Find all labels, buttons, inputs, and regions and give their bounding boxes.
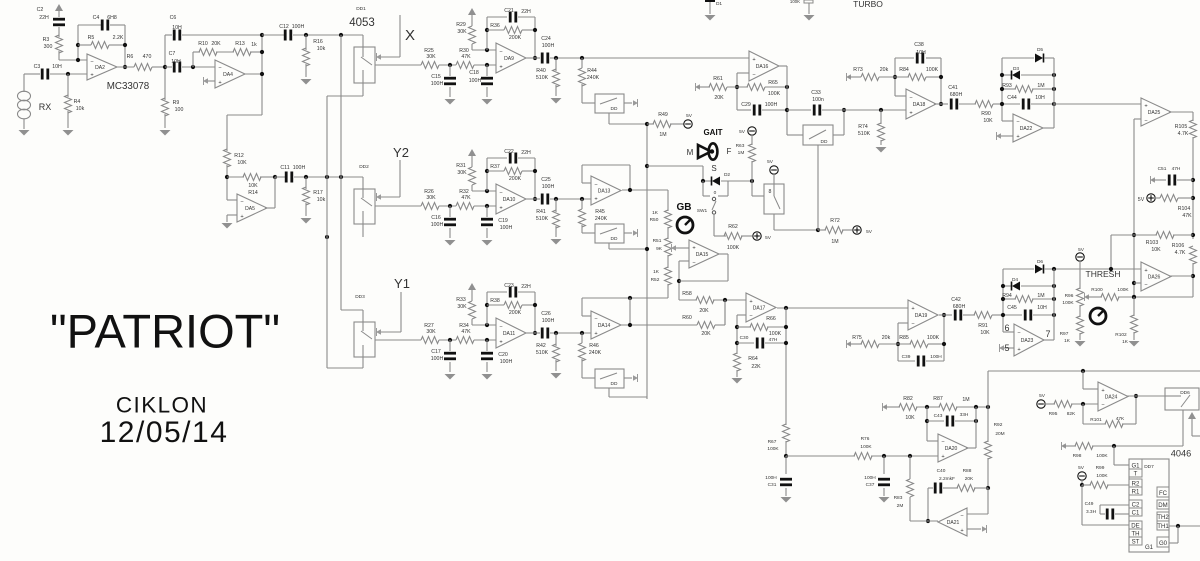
svg-text:C16: C16 <box>431 215 441 221</box>
svg-text:R42: R42 <box>536 343 546 349</box>
svg-text:DA17: DA17 <box>753 306 766 312</box>
svg-text:3.3H: 3.3H <box>1086 509 1097 515</box>
svg-text:TH1: TH1 <box>1157 523 1169 530</box>
svg-text:C44: C44 <box>1007 95 1017 101</box>
svg-text:0: 0 <box>714 190 717 196</box>
svg-text:R88: R88 <box>963 468 972 474</box>
svg-text:DE: DE <box>1131 523 1139 530</box>
svg-text:1M: 1M <box>1037 83 1044 89</box>
svg-text:R75: R75 <box>852 335 862 341</box>
svg-text:C12: C12 <box>279 24 289 30</box>
svg-text:300: 300 <box>44 44 53 50</box>
svg-text:4053: 4053 <box>349 17 375 29</box>
svg-text:1k: 1k <box>251 42 257 48</box>
svg-text:5V: 5V <box>1078 247 1085 253</box>
svg-text:C11: C11 <box>280 165 289 171</box>
svg-text:510K: 510K <box>536 216 549 222</box>
svg-text:D6: D6 <box>1037 259 1043 265</box>
svg-text:680H: 680H <box>953 304 966 310</box>
svg-text:R17: R17 <box>313 190 323 196</box>
svg-text:2.2mkF: 2.2mkF <box>939 476 955 482</box>
svg-text:10k: 10k <box>317 197 326 203</box>
svg-text:100H: 100H <box>431 222 444 228</box>
svg-text:DA10: DA10 <box>503 197 516 203</box>
svg-text:5V: 5V <box>1039 393 1046 399</box>
svg-text:R2: R2 <box>1132 481 1140 488</box>
svg-text:6: 6 <box>1004 323 1009 333</box>
svg-text:R16: R16 <box>313 39 323 45</box>
svg-text:DA20: DA20 <box>945 446 958 452</box>
svg-text:100K: 100K <box>860 444 872 450</box>
svg-text:R63: R63 <box>736 143 745 149</box>
svg-text:100H: 100H <box>765 475 777 481</box>
svg-text:DD3: DD3 <box>355 294 365 300</box>
svg-text:DD: DD <box>821 139 828 145</box>
svg-text:5: 5 <box>1004 343 1009 353</box>
svg-text:10H: 10H <box>916 50 926 56</box>
svg-text:22H: 22H <box>39 15 49 21</box>
svg-text:DA21: DA21 <box>947 520 960 526</box>
svg-text:C45: C45 <box>1007 305 1017 311</box>
svg-text:D3: D3 <box>1013 66 1019 72</box>
svg-text:22K: 22K <box>751 364 761 370</box>
svg-text:R105: R105 <box>1175 124 1188 130</box>
svg-text:R1: R1 <box>1132 489 1140 496</box>
svg-text:2.2K: 2.2K <box>113 35 124 41</box>
svg-text:FC: FC <box>1159 490 1168 497</box>
svg-text:30K: 30K <box>457 170 467 176</box>
svg-text:R13: R13 <box>235 41 245 47</box>
svg-text:X: X <box>405 27 415 44</box>
svg-text:C6: C6 <box>170 15 177 21</box>
svg-text:100H: 100H <box>500 359 513 365</box>
svg-text:20k: 20k <box>882 335 891 341</box>
svg-text:DA22: DA22 <box>1020 126 1033 132</box>
svg-text:10K: 10K <box>1151 247 1161 253</box>
svg-text:D4: D4 <box>1012 277 1018 283</box>
svg-text:510K: 510K <box>858 131 871 137</box>
svg-text:C7: C7 <box>169 51 176 57</box>
svg-text:R85: R85 <box>899 335 909 341</box>
svg-text:47K: 47K <box>461 195 471 201</box>
svg-text:4.7K: 4.7K <box>1175 250 1186 256</box>
svg-text:10K: 10K <box>983 118 993 124</box>
svg-text:10H: 10H <box>171 59 181 65</box>
svg-text:10k: 10k <box>76 106 85 112</box>
svg-text:100K: 100K <box>767 446 779 452</box>
svg-text:R100: R100 <box>1091 287 1103 293</box>
svg-text:R40: R40 <box>536 68 546 74</box>
svg-text:30K: 30K <box>457 29 467 35</box>
svg-text:Y1: Y1 <box>394 276 410 291</box>
svg-text:1M: 1M <box>962 397 969 403</box>
svg-text:510K: 510K <box>536 350 549 356</box>
svg-text:R29: R29 <box>456 22 466 28</box>
svg-text:DD2: DD2 <box>359 164 369 170</box>
svg-text:R67: R67 <box>768 439 777 445</box>
svg-text:5V: 5V <box>1078 465 1085 471</box>
svg-text:82K: 82K <box>1067 411 1076 417</box>
svg-text:R5: R5 <box>88 35 95 41</box>
svg-text:CIKLON: CIKLON <box>116 393 208 418</box>
svg-text:20k: 20k <box>880 67 889 73</box>
svg-text:R10: R10 <box>198 41 208 47</box>
svg-text:R60: R60 <box>682 315 692 321</box>
svg-text:7: 7 <box>1045 329 1050 339</box>
svg-text:R104: R104 <box>1178 206 1191 212</box>
svg-text:G1: G1 <box>1145 544 1154 551</box>
svg-text:DA15: DA15 <box>696 252 709 258</box>
svg-text:R37: R37 <box>490 164 500 170</box>
svg-text:ST: ST <box>1132 539 1140 546</box>
svg-text:R36: R36 <box>490 23 500 29</box>
svg-text:R4: R4 <box>74 99 81 105</box>
svg-text:100n: 100n <box>812 97 824 103</box>
svg-text:C40: C40 <box>937 468 946 474</box>
svg-text:R99: R99 <box>1096 465 1105 471</box>
svg-text:47K: 47K <box>461 54 471 60</box>
svg-text:1M: 1M <box>831 239 838 245</box>
svg-text:C49: C49 <box>1085 501 1094 507</box>
svg-text:F: F <box>727 147 732 156</box>
svg-text:R6: R6 <box>127 54 134 60</box>
svg-text:5V: 5V <box>765 235 772 241</box>
svg-text:C3: C3 <box>34 64 41 70</box>
svg-text:MC33078: MC33078 <box>107 81 150 92</box>
svg-text:100H: 100H <box>765 102 778 108</box>
svg-text:T: T <box>1134 471 1138 478</box>
svg-text:R90: R90 <box>981 111 991 117</box>
svg-text:100K: 100K <box>769 331 782 337</box>
svg-text:C43: C43 <box>934 413 943 419</box>
svg-text:30K: 30K <box>426 54 436 60</box>
svg-text:M: M <box>687 148 694 157</box>
svg-text:R61: R61 <box>713 76 723 82</box>
svg-text:47H: 47H <box>1172 166 1181 172</box>
svg-text:22H: 22H <box>521 284 531 290</box>
svg-text:R82: R82 <box>903 396 913 402</box>
svg-text:100H: 100H <box>469 78 482 84</box>
svg-text:20K: 20K <box>965 476 974 482</box>
svg-text:200K: 200K <box>509 310 522 316</box>
svg-text:4.7K: 4.7K <box>1178 131 1189 137</box>
svg-text:R62: R62 <box>728 224 738 230</box>
svg-text:R95: R95 <box>1049 411 1058 417</box>
svg-text:10K: 10K <box>905 415 915 421</box>
svg-text:R64: R64 <box>748 356 758 362</box>
svg-text:C26: C26 <box>541 311 551 317</box>
svg-text:R102: R102 <box>1115 332 1127 338</box>
svg-text:R9: R9 <box>173 100 180 106</box>
svg-text:R49: R49 <box>658 112 668 118</box>
svg-text:C29: C29 <box>741 102 751 108</box>
svg-text:DD7: DD7 <box>1144 464 1154 470</box>
svg-text:10H: 10H <box>52 64 62 70</box>
svg-text:100H: 100H <box>930 354 942 360</box>
svg-text:R31: R31 <box>456 163 466 169</box>
svg-text:240K: 240K <box>587 75 600 81</box>
svg-text:R98: R98 <box>1073 453 1082 459</box>
svg-text:C23: C23 <box>504 283 514 289</box>
svg-text:C1: C1 <box>1132 510 1140 517</box>
svg-text:10H: 10H <box>172 25 182 31</box>
svg-text:240K: 240K <box>589 350 602 356</box>
svg-text:100K: 100K <box>790 0 800 4</box>
svg-text:10H: 10H <box>1035 95 1045 101</box>
svg-text:8: 8 <box>769 189 772 195</box>
svg-text:R38: R38 <box>490 298 500 304</box>
svg-text:5V: 5V <box>739 129 746 135</box>
svg-text:DA9: DA9 <box>504 56 514 62</box>
svg-text:200K: 200K <box>509 35 522 41</box>
svg-text:RX: RX <box>39 102 52 112</box>
svg-text:G0: G0 <box>1159 540 1168 547</box>
svg-text:DA5: DA5 <box>245 206 255 212</box>
svg-text:S: S <box>711 164 716 173</box>
svg-text:D5: D5 <box>1037 47 1043 53</box>
svg-text:C22: C22 <box>504 149 514 155</box>
svg-text:C20: C20 <box>498 352 508 358</box>
svg-text:DD6: DD6 <box>1180 390 1190 396</box>
svg-text:R101: R101 <box>1090 417 1102 423</box>
svg-text:100: 100 <box>175 107 184 113</box>
svg-text:R46: R46 <box>589 343 599 349</box>
svg-text:R74: R74 <box>858 124 868 130</box>
svg-text:100K: 100K <box>768 91 781 97</box>
svg-text:1K: 1K <box>1122 339 1129 345</box>
svg-text:DM: DM <box>1158 502 1167 509</box>
svg-text:470: 470 <box>143 54 152 60</box>
svg-text:R50: R50 <box>650 217 659 223</box>
svg-text:C17: C17 <box>431 349 441 355</box>
svg-text:DA25: DA25 <box>1148 110 1161 116</box>
svg-text:5V: 5V <box>866 229 873 235</box>
svg-text:R83: R83 <box>894 495 903 501</box>
svg-text:R45: R45 <box>595 209 605 215</box>
svg-text:33H: 33H <box>960 412 969 418</box>
svg-text:C38: C38 <box>914 42 924 48</box>
svg-text:12/05/14: 12/05/14 <box>100 416 229 449</box>
svg-text:C15: C15 <box>431 74 441 80</box>
svg-text:R91: R91 <box>978 323 988 329</box>
svg-text:TURBO: TURBO <box>853 0 883 9</box>
svg-text:30K: 30K <box>457 304 467 310</box>
svg-text:DD: DD <box>611 106 618 112</box>
svg-text:6H8: 6H8 <box>107 15 117 21</box>
svg-text:22H: 22H <box>521 9 531 15</box>
svg-text:200K: 200K <box>509 176 522 182</box>
svg-text:R96: R96 <box>1065 293 1074 299</box>
svg-text:10K: 10K <box>980 330 990 336</box>
svg-text:22H: 22H <box>521 150 531 156</box>
svg-text:20M: 20M <box>995 431 1004 437</box>
svg-text:5V: 5V <box>686 113 693 119</box>
svg-text:R92: R92 <box>994 422 1003 428</box>
svg-text:100H: 100H <box>292 24 305 30</box>
svg-text:DA16: DA16 <box>756 64 769 70</box>
svg-text:DD: DD <box>611 236 618 242</box>
svg-text:DA11: DA11 <box>503 331 515 337</box>
svg-text:100K: 100K <box>927 335 940 341</box>
svg-text:Y2: Y2 <box>393 145 409 160</box>
svg-text:C19: C19 <box>498 218 508 224</box>
svg-text:C33: C33 <box>811 90 821 96</box>
svg-text:R93: R93 <box>1002 83 1012 89</box>
svg-text:100K: 100K <box>926 67 939 73</box>
svg-text:C31: C31 <box>768 482 777 488</box>
svg-text:20K: 20K <box>714 95 724 101</box>
svg-text:100K: 100K <box>1096 453 1108 459</box>
svg-text:1K: 1K <box>1064 338 1071 344</box>
svg-text:1M: 1M <box>1037 293 1044 299</box>
svg-text:1M: 1M <box>738 150 745 156</box>
svg-text:R73: R73 <box>853 67 863 73</box>
svg-text:100H: 100H <box>864 475 876 481</box>
svg-text:C4: C4 <box>93 15 100 21</box>
svg-text:D1: D1 <box>716 1 722 7</box>
svg-text:R97: R97 <box>1060 331 1069 337</box>
svg-text:R51: R51 <box>653 238 662 244</box>
svg-text:10k: 10k <box>317 46 326 52</box>
svg-text:DD: DD <box>611 381 618 387</box>
svg-text:TH: TH <box>1131 531 1139 538</box>
svg-text:47K: 47K <box>461 329 471 335</box>
svg-text:R33: R33 <box>456 297 466 303</box>
svg-text:DA23: DA23 <box>1021 338 1034 344</box>
svg-text:R3: R3 <box>43 37 50 43</box>
svg-text:20K: 20K <box>701 331 711 337</box>
svg-text:30K: 30K <box>426 329 436 335</box>
svg-text:C37: C37 <box>866 482 875 488</box>
svg-text:GB: GB <box>677 202 692 213</box>
svg-text:R94: R94 <box>1002 293 1012 299</box>
svg-text:100K: 100K <box>1062 300 1074 306</box>
svg-text:100K: 100K <box>1117 287 1129 293</box>
svg-text:100H: 100H <box>293 165 306 171</box>
svg-text:R76: R76 <box>861 436 870 442</box>
svg-text:R106: R106 <box>1172 243 1185 249</box>
svg-text:DA2: DA2 <box>95 65 105 71</box>
svg-text:R12: R12 <box>234 153 244 159</box>
svg-text:10K: 10K <box>237 160 247 166</box>
svg-text:C51: C51 <box>1158 166 1167 172</box>
svg-text:10H: 10H <box>1037 305 1047 311</box>
svg-text:2M: 2M <box>897 503 904 509</box>
svg-text:R84: R84 <box>899 67 909 73</box>
svg-text:100H: 100H <box>500 225 513 231</box>
svg-text:DA24: DA24 <box>1105 395 1118 401</box>
svg-text:4046: 4046 <box>1171 449 1191 459</box>
svg-text:100H: 100H <box>542 318 555 324</box>
svg-text:100H: 100H <box>542 43 555 49</box>
svg-text:R44: R44 <box>587 68 597 74</box>
svg-text:100H: 100H <box>542 184 555 190</box>
svg-text:30K: 30K <box>426 195 436 201</box>
svg-text:G1: G1 <box>1131 463 1140 470</box>
svg-text:100H: 100H <box>431 356 444 362</box>
svg-text:C2: C2 <box>1132 502 1140 509</box>
svg-text:9K: 9K <box>656 246 663 252</box>
svg-text:R41: R41 <box>536 209 546 215</box>
svg-text:C18: C18 <box>469 70 479 76</box>
svg-text:C30: C30 <box>740 335 749 341</box>
svg-text:240K: 240K <box>595 216 608 222</box>
svg-text:DA14: DA14 <box>598 323 611 329</box>
svg-text:R58: R58 <box>682 291 692 297</box>
svg-text:R65: R65 <box>768 80 778 86</box>
svg-text:10K: 10K <box>248 183 258 189</box>
svg-text:THRESH: THRESH <box>1086 269 1121 279</box>
svg-text:1K: 1K <box>652 210 659 216</box>
svg-text:D2: D2 <box>724 172 730 178</box>
svg-text:DA13: DA13 <box>598 189 611 195</box>
svg-text:R103: R103 <box>1146 240 1159 246</box>
svg-text:R66: R66 <box>766 316 776 322</box>
svg-text:1M: 1M <box>659 132 666 138</box>
svg-text:20K: 20K <box>211 41 221 47</box>
svg-text:R87: R87 <box>933 396 943 402</box>
svg-text:C2: C2 <box>37 7 44 13</box>
svg-text:R14: R14 <box>248 190 258 196</box>
svg-text:47H: 47H <box>769 337 778 343</box>
svg-text:100K: 100K <box>1096 473 1108 479</box>
svg-text:TH2: TH2 <box>1157 514 1169 521</box>
svg-text:100K: 100K <box>727 245 740 251</box>
svg-text:GAIT: GAIT <box>703 128 722 137</box>
svg-text:5V: 5V <box>767 159 774 165</box>
svg-text:5V: 5V <box>1138 197 1145 203</box>
svg-text:DD1: DD1 <box>356 6 366 12</box>
svg-text:R52: R52 <box>651 277 660 283</box>
svg-text:20K: 20K <box>699 308 709 314</box>
svg-text:C39: C39 <box>902 354 911 360</box>
svg-text:680H: 680H <box>950 92 963 98</box>
svg-text:C42: C42 <box>951 297 961 303</box>
svg-text:47K: 47K <box>1182 213 1192 219</box>
svg-text:C24: C24 <box>541 36 551 42</box>
svg-text:DA26: DA26 <box>1148 275 1161 281</box>
svg-text:"PATRIOT": "PATRIOT" <box>50 305 280 358</box>
svg-text:47K: 47K <box>1116 416 1125 422</box>
svg-text:SW1: SW1 <box>697 208 708 214</box>
svg-text:R72: R72 <box>830 218 840 224</box>
svg-text:510K: 510K <box>536 75 549 81</box>
svg-text:100H: 100H <box>431 81 444 87</box>
svg-text:DA18: DA18 <box>913 102 926 108</box>
svg-text:C21: C21 <box>504 8 514 14</box>
svg-text:C25: C25 <box>541 177 551 183</box>
svg-text:DA19: DA19 <box>915 313 928 319</box>
svg-text:DA4: DA4 <box>223 72 233 78</box>
svg-text:1K: 1K <box>653 269 660 275</box>
svg-text:C41: C41 <box>948 85 958 91</box>
